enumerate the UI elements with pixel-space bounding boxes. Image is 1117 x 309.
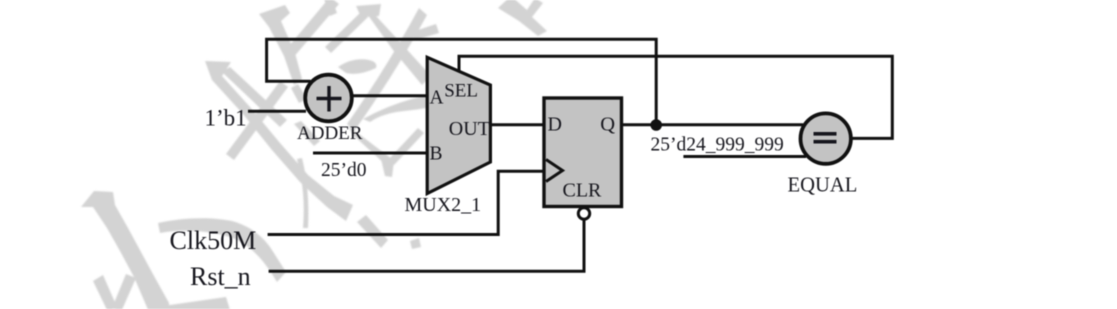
wire: constant 25'd24_999_999 to EQUAL input	[683, 155, 806, 158]
adder plus sign	[317, 86, 342, 112]
wm horizontal band to hook	[158, 218, 286, 282]
wire: DFF Q to EQUAL input	[621, 123, 803, 126]
watermark strokes	[0, 0, 1, 1]
equals sign	[814, 134, 837, 142]
svg-text:A: A	[430, 88, 444, 109]
wm person shape top	[498, 0, 547, 36]
svg-text:25’d0: 25’d0	[321, 160, 367, 181]
wm X backslash arm	[347, 8, 427, 130]
wm steep thick stroke bottom-left	[81, 191, 169, 309]
wm long press stroke with serif	[205, 61, 353, 221]
wm small slash lower	[294, 121, 320, 146]
svg-text:1’b1: 1’b1	[205, 106, 247, 131]
wire: Clk50M to DFF clock	[268, 171, 545, 234]
dff U_DFF rectangle	[544, 98, 622, 207]
svg-text:OUT: OUT	[449, 118, 490, 140]
wm diagonal tail below mux label	[357, 215, 388, 248]
svg-text:Clk50M: Clk50M	[170, 226, 257, 255]
dff clock chevron	[546, 160, 563, 182]
comparator EQUAL circle	[801, 113, 851, 163]
wire: adder output to MUX A	[352, 94, 428, 97]
wire: 25'd0 to MUX B	[313, 152, 428, 155]
wm bottom band	[163, 297, 230, 309]
wm caret right leg	[365, 11, 431, 85]
svg-text:ADDER: ADDER	[297, 123, 363, 144]
wm sliver near adder	[291, 84, 307, 103]
wm short backslash (x2 arm)	[226, 81, 288, 160]
wm caret left leg	[325, 12, 368, 53]
svg-text:Rst_n: Rst_n	[190, 262, 251, 291]
svg-text:EQUAL: EQUAL	[788, 174, 858, 196]
wm stroke: backslash diagonal	[284, 0, 339, 59]
wm slash from tip	[222, 67, 287, 127]
wm Y left arm	[348, 125, 392, 166]
adder U_ADDER circle	[305, 75, 352, 122]
wire feedback: Q to adder top input	[267, 39, 657, 125]
svg-text:D: D	[548, 114, 562, 136]
svg-text:B: B	[430, 144, 443, 165]
wm v right arm	[112, 274, 136, 309]
wm small flat stroke near X	[412, 24, 439, 40]
wm stroke: steep tick with serif top	[259, 5, 302, 85]
wm leaf stroke	[338, 59, 376, 74]
svg-text:25’d24_999_999: 25’d24_999_999	[651, 134, 784, 155]
dff CLR bubble (active low)	[578, 208, 589, 219]
svg-text:MUX2_1: MUX2_1	[405, 194, 482, 216]
wire: 1'b1 to adder	[248, 110, 306, 113]
junction dot on Q net	[650, 119, 662, 131]
wm Y stem	[381, 159, 394, 177]
svg-text:Q: Q	[600, 114, 615, 136]
wire: EQUAL output to MUX SEL	[459, 56, 892, 138]
wm thin curved tail	[297, 158, 308, 228]
svg-text:SEL: SEL	[444, 81, 478, 102]
wm tiny tail	[410, 238, 421, 249]
wire: Rst_n to DFF CLR bubble	[269, 220, 584, 272]
wm caret apex serif	[356, 4, 381, 17]
wm flat stroke under mux A	[363, 96, 448, 122]
mux MUX2_1 trapezoid	[427, 57, 490, 193]
wm v left arm	[93, 275, 117, 309]
wm stroke: small slash at top	[323, 0, 337, 16]
svg-text:CLR: CLR	[563, 179, 603, 201]
wire: MUX OUT to DFF D	[490, 123, 545, 126]
wm Y right arm	[388, 128, 424, 165]
